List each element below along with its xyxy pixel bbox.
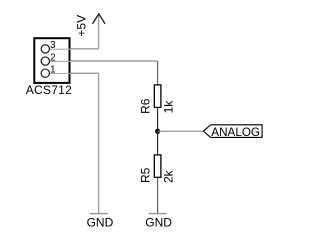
svg-text:ACS712: ACS712: [26, 83, 72, 97]
connector U1 ACS712: [26, 38, 72, 97]
svg-text:R5: R5: [139, 167, 153, 183]
svg-text:1: 1: [50, 65, 55, 76]
resistor R5: [139, 155, 176, 183]
pin 3 circle: [41, 45, 49, 53]
svg-text:GND: GND: [145, 215, 172, 229]
wire pin1 to GND corner: [49, 72, 98, 74]
resistor R6: [139, 85, 176, 114]
svg-text:ANALOG: ANALOG: [211, 126, 260, 139]
pin 2 circle: [41, 57, 49, 65]
svg-text:2: 2: [50, 52, 55, 63]
ground symbol right: [145, 214, 172, 230]
net label ANALOG: [203, 125, 262, 139]
ground symbol left: [87, 214, 114, 230]
svg-text:3: 3: [50, 40, 56, 51]
wire R6 lead to junction: [157, 107, 159, 131]
svg-text:2k: 2k: [161, 169, 175, 183]
wire pin3 to +5V corner: [49, 48, 98, 50]
pin 2 leg: [50, 60, 71, 62]
pin 3 leg: [50, 48, 71, 50]
power symbol +5V arrow: [75, 14, 106, 37]
wire junction to ANALOG label: [158, 130, 204, 132]
pin 1 circle: [41, 69, 49, 77]
junction node dot: [155, 129, 160, 134]
svg-text:+5V: +5V: [75, 15, 89, 37]
wire vertical down to R6: [157, 61, 159, 85]
wire R5 lead to ground: [157, 177, 159, 213]
svg-text:GND: GND: [87, 215, 114, 229]
wire vertical to left ground: [98, 73, 100, 213]
svg-text:1k: 1k: [161, 100, 175, 114]
pin 1 leg: [50, 73, 71, 75]
svg-text:R6: R6: [139, 98, 153, 114]
wire pin2 to R6 corner: [49, 60, 157, 62]
wire junction to R5: [157, 131, 159, 155]
wire +5V stem: [98, 14, 100, 49]
